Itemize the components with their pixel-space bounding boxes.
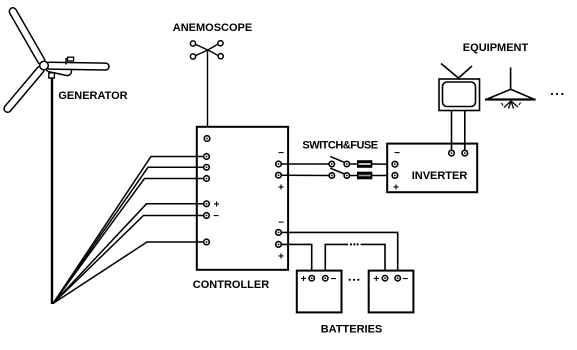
- svg-text:+: +: [214, 199, 220, 210]
- label CONTROLLER: [193, 279, 269, 291]
- inverter output terminal left: [449, 150, 455, 156]
- generator nacelle: [45, 63, 72, 77]
- controller left terminal 1: [204, 154, 210, 160]
- controller right terminal AC+: [276, 172, 284, 193]
- anemoscope symbol: [190, 41, 223, 60]
- series link dots: [350, 243, 359, 245]
- inverter input terminal minus: [392, 148, 400, 167]
- tv set: [439, 79, 480, 111]
- generator blade upper-left: [8, 6, 46, 65]
- generator tower mount: [49, 73, 55, 78]
- svg-text:CONTROLLER: CONTROLLER: [193, 279, 269, 291]
- switch S2: [329, 168, 349, 178]
- svg-text:ANEMOSCOPE: ANEMOSCOPE: [173, 22, 252, 34]
- wire controller to switch row 2: [281, 174, 329, 176]
- label BATTERIES: [321, 324, 383, 336]
- wire fuse to inverter row 2: [372, 174, 392, 176]
- wire generator to controller terminal 2: [53, 167, 204, 303]
- svg-text:GENERATOR: GENERATOR: [58, 90, 127, 102]
- label INVERTER: [412, 170, 468, 182]
- controller right terminal BAT-: [276, 218, 284, 236]
- dots more batteries: [349, 279, 360, 281]
- svg-text:−: −: [394, 148, 400, 159]
- wire controller BAT- to battery 2 minus: [281, 232, 397, 275]
- battery B1 terminal minus: [323, 274, 337, 285]
- svg-text:−: −: [213, 211, 219, 222]
- wire controller BAT+ to battery 1 plus: [281, 244, 311, 275]
- lamp cord: [510, 67, 512, 89]
- controller left terminal 3: [204, 176, 210, 182]
- battery B1 box: [297, 271, 342, 313]
- label EQUIPMENT: [463, 42, 529, 54]
- generator hub: [40, 61, 49, 70]
- wire switch to fuse row 1: [350, 163, 358, 165]
- fuse F1: [358, 161, 372, 168]
- battery B1 terminal plus: [301, 274, 315, 285]
- svg-text:+: +: [278, 183, 284, 194]
- controller left terminal 4 plus: [204, 199, 220, 210]
- label GENERATOR: [58, 90, 127, 102]
- svg-text:SWITCH&FUSE: SWITCH&FUSE: [302, 140, 377, 152]
- controller right terminal AC- top: [276, 148, 284, 167]
- series link dots to battery2: [361, 244, 385, 275]
- controller terminal top (anemoscope input): [204, 136, 210, 142]
- inverter input terminal plus: [392, 173, 399, 194]
- svg-text:−: −: [330, 274, 336, 285]
- controller right terminal BAT+: [276, 242, 284, 263]
- wire tv to inverter left: [451, 111, 453, 151]
- inverter output terminal right: [462, 150, 468, 156]
- battery B2 box: [369, 271, 414, 313]
- lamp light rays: [502, 101, 521, 109]
- battery B2 terminal minus: [395, 274, 408, 285]
- generator pole: [51, 78, 53, 304]
- controller U1 box: [197, 127, 288, 270]
- svg-text:INVERTER: INVERTER: [412, 170, 468, 182]
- label SWITCH&FUSE: [302, 140, 377, 152]
- svg-text:EQUIPMENT: EQUIPMENT: [463, 42, 529, 54]
- svg-text:+: +: [278, 252, 284, 263]
- lamp shade: [485, 89, 536, 99]
- svg-text:+: +: [301, 274, 307, 285]
- generator tail sensor: [66, 57, 74, 64]
- controller left terminal 6: [204, 239, 210, 245]
- generator blade lower-left: [3, 65, 46, 114]
- svg-text:−: −: [278, 148, 284, 159]
- more equipment dots: [551, 93, 564, 95]
- svg-text:BATTERIES: BATTERIES: [321, 324, 383, 336]
- battery B2 terminal plus: [373, 274, 387, 285]
- wire fuse to inverter row 1: [372, 163, 392, 165]
- svg-text:+: +: [373, 274, 379, 285]
- inverter U2 box: [387, 144, 477, 193]
- controller left terminal 5 minus: [204, 211, 219, 222]
- wire generator to controller terminal 5: [53, 216, 204, 304]
- tv antenna: [441, 64, 472, 79]
- wire generator to controller terminal 6: [53, 242, 204, 304]
- wire generator to controller terminal 1: [53, 157, 204, 304]
- svg-text:−: −: [402, 274, 408, 285]
- fuse F2: [358, 172, 372, 179]
- svg-text:−: −: [278, 218, 284, 229]
- wire anemoscope to controller: [207, 50, 209, 136]
- series link battery1 to dots: [325, 244, 348, 275]
- generator blade right: [46, 62, 109, 70]
- wire tv to inverter right: [464, 111, 466, 151]
- controller left terminal 2: [204, 165, 210, 171]
- wire controller to switch row 1: [281, 163, 329, 165]
- wire generator to controller terminal 4: [53, 204, 204, 304]
- switch S1: [329, 157, 349, 167]
- svg-text:+: +: [393, 183, 399, 194]
- wire generator to controller terminal 3: [53, 179, 204, 304]
- wire switch to fuse row 2: [350, 175, 358, 177]
- label ANEMOSCOPE: [173, 22, 252, 34]
